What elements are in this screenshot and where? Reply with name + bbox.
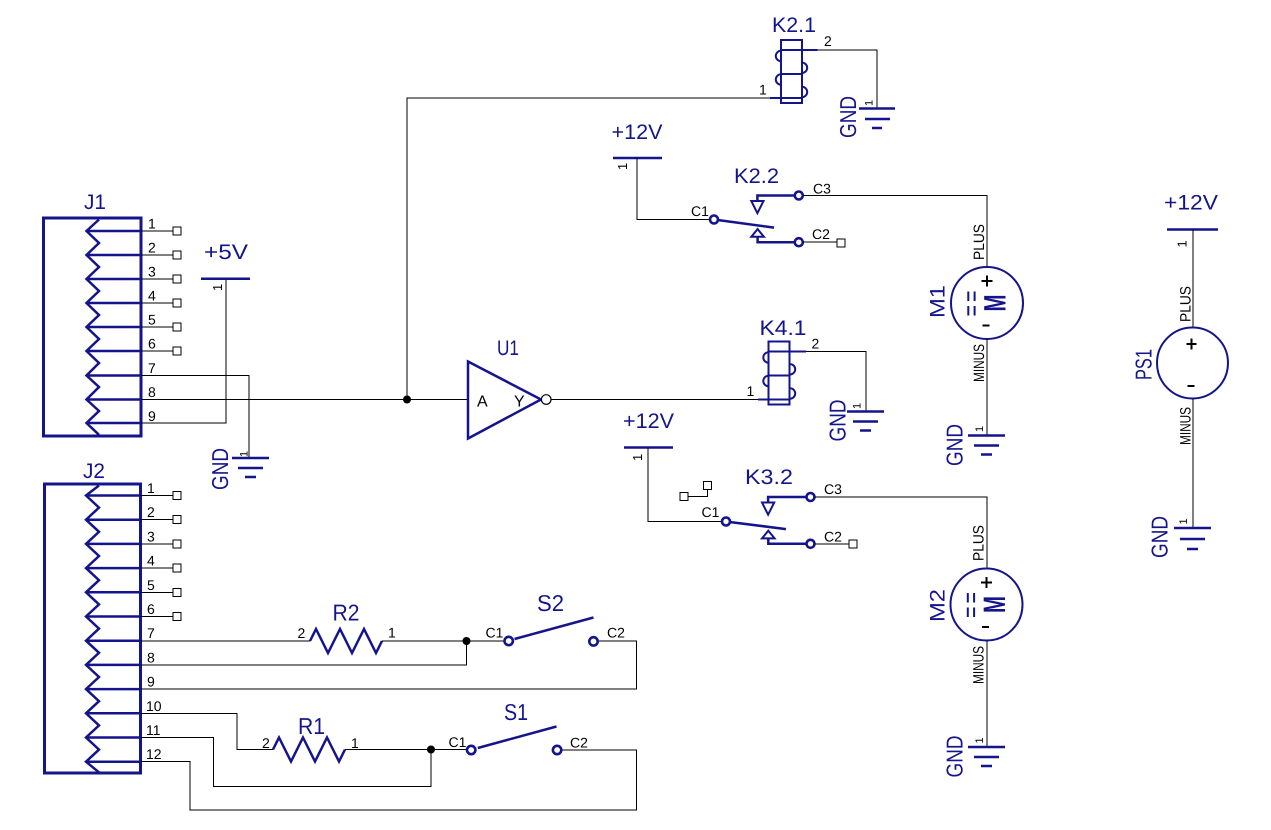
motor M2 <box>927 569 1023 641</box>
svg-text:C2: C2 <box>570 735 588 751</box>
svg-text:MINUS: MINUS <box>971 646 988 684</box>
svg-text:1: 1 <box>210 284 225 291</box>
svg-text:1: 1 <box>747 383 755 399</box>
ground GND (J1 pin 7) <box>207 448 269 490</box>
J1 pin 1 <box>141 216 181 236</box>
ground GND (PS1) <box>1147 516 1212 558</box>
svg-text:C1: C1 <box>486 625 504 641</box>
svg-text:2: 2 <box>824 33 832 49</box>
svg-text:8: 8 <box>148 384 156 400</box>
svg-text:K4.1: K4.1 <box>760 317 807 340</box>
svg-text:1: 1 <box>148 216 156 232</box>
switch S1 <box>449 699 589 754</box>
svg-text:C2: C2 <box>607 625 625 641</box>
svg-text:M: M <box>977 596 1012 613</box>
svg-text:K3.2: K3.2 <box>745 466 793 489</box>
svg-text:4: 4 <box>148 288 156 304</box>
wire +12V to K3.2 C1 <box>648 448 721 522</box>
power +12V (K3.2) <box>623 410 674 461</box>
svg-text:GND: GND <box>825 400 851 442</box>
switch S2 <box>486 590 626 646</box>
svg-text:PLUS: PLUS <box>971 525 988 561</box>
svg-text:9: 9 <box>148 408 156 424</box>
motor M1 <box>927 267 1024 339</box>
ground GND (M1) <box>942 424 1006 466</box>
wire +12V to PS1 plus <box>1192 230 1194 328</box>
svg-text:1: 1 <box>239 451 251 457</box>
connector J2 <box>45 460 141 773</box>
K2.2 C2 unconnected square <box>803 239 845 247</box>
svg-text:2: 2 <box>148 240 156 256</box>
svg-text:PLUS: PLUS <box>971 224 988 260</box>
svg-text:M2: M2 <box>927 589 950 622</box>
J2 pin 4 <box>141 553 182 573</box>
svg-text:+12V: +12V <box>612 121 663 144</box>
wire PS1 minus to GND <box>1192 399 1194 529</box>
wire R2 pin1 to S2 C1 <box>382 640 504 642</box>
svg-text:+12V: +12V <box>623 410 674 433</box>
J1 pin 6 <box>141 336 181 356</box>
svg-text:GND: GND <box>1147 516 1173 558</box>
J1 pin 8 wire to U1 input <box>141 384 468 400</box>
svg-text:Y: Y <box>514 394 525 411</box>
svg-text:GND: GND <box>207 448 233 490</box>
svg-text:C1: C1 <box>449 734 467 750</box>
connector J1 <box>44 191 142 436</box>
wire K3.2 C3 to motor M2 <box>815 497 987 569</box>
relay coil K4.1 <box>758 317 807 405</box>
svg-text:6: 6 <box>148 336 156 352</box>
J2 pin 2 <box>141 504 182 524</box>
svg-text:1: 1 <box>1175 240 1190 247</box>
svg-text:C1: C1 <box>691 203 709 219</box>
J1 pin 7 wire to GND <box>141 360 249 458</box>
node junction at U1 input <box>403 396 411 404</box>
svg-text:1: 1 <box>1178 518 1190 524</box>
J2 pin 11 wire to R1 junction <box>141 722 432 787</box>
J2 pin 10 wire to R1 <box>141 698 274 750</box>
svg-text:J2: J2 <box>83 460 105 483</box>
wire K2.1 pin 2 to GND <box>818 50 878 109</box>
wire M1 minus to GND <box>986 339 988 435</box>
resistor R2 <box>298 600 397 654</box>
svg-text:M1: M1 <box>927 285 950 318</box>
J2 pin 9 wire to S2 C2 <box>141 641 637 690</box>
wire U1 input up to K2.1 pin 1 <box>407 98 770 400</box>
svg-text:1: 1 <box>388 625 396 641</box>
J1 pin 9 wire to +5V <box>141 279 226 424</box>
wire K4.1 pin 2 to GND <box>806 352 866 412</box>
svg-text:4: 4 <box>147 553 155 569</box>
power +12V (PS1) <box>1164 192 1218 248</box>
J2 pin 6 <box>141 601 182 621</box>
svg-text:C3: C3 <box>813 181 831 197</box>
svg-text:+12V: +12V <box>1164 192 1218 215</box>
ground GND (K4.1) <box>825 400 885 442</box>
svg-text:S2: S2 <box>537 590 564 616</box>
J2 pin 12 wire to S1 C2 <box>141 746 637 810</box>
svg-text:8: 8 <box>147 649 155 665</box>
svg-text:3: 3 <box>147 528 155 544</box>
svg-text:K2.2: K2.2 <box>734 165 779 188</box>
wire K2.2 C3 to motor M1 <box>803 196 987 268</box>
svg-text:1: 1 <box>759 82 767 98</box>
unconnected stub squares <box>680 482 712 501</box>
svg-text:1: 1 <box>864 100 876 106</box>
svg-text:7: 7 <box>148 360 156 376</box>
svg-text:3: 3 <box>148 264 156 280</box>
svg-text:C3: C3 <box>824 481 842 497</box>
op-amp buffer U1 <box>468 337 541 439</box>
J1 pin 3 <box>141 264 181 284</box>
svg-text:2: 2 <box>147 504 155 520</box>
svg-text:U1: U1 <box>497 337 519 360</box>
relay contact K2.2 <box>691 165 831 246</box>
svg-text:PS1: PS1 <box>1131 349 1157 380</box>
J2 pin 3 <box>141 528 182 548</box>
J1 pin 5 <box>141 312 181 332</box>
U1 output bubble <box>541 395 551 405</box>
J1 pin 4 <box>141 288 181 308</box>
svg-text:R1: R1 <box>298 713 325 739</box>
node junction R2/S2/J2.8 <box>463 637 471 645</box>
svg-text:2: 2 <box>262 735 270 751</box>
power +12V (K2.2) <box>612 121 663 170</box>
svg-text:GND: GND <box>942 736 968 778</box>
J2 pin 1 <box>141 480 182 500</box>
J2 pin 8 wire to junction <box>141 641 467 665</box>
svg-text:C1: C1 <box>702 504 720 520</box>
wire R1 pin1 to S1 C1 <box>345 749 466 751</box>
svg-text:C2: C2 <box>824 529 842 545</box>
svg-text:1: 1 <box>974 426 986 432</box>
wire +12V to K2.2 C1 <box>637 158 709 220</box>
svg-text:2: 2 <box>298 625 306 641</box>
svg-text:MINUS: MINUS <box>971 344 988 382</box>
svg-text:1: 1 <box>852 403 864 409</box>
power supply PS1 <box>1131 328 1229 399</box>
relay coil K2.1 <box>770 14 818 103</box>
svg-text:1: 1 <box>351 735 359 751</box>
svg-text:11: 11 <box>146 722 161 738</box>
svg-text:GND: GND <box>942 424 968 466</box>
ground GND (K2.1) <box>835 96 895 138</box>
J2 pin 5 <box>141 577 182 597</box>
node junction R1/S1/J2.11 <box>427 746 435 754</box>
svg-text:10: 10 <box>146 698 162 714</box>
resistor R1 <box>262 713 359 762</box>
svg-text:A: A <box>477 394 488 411</box>
svg-text:1: 1 <box>974 737 986 743</box>
svg-text:5: 5 <box>148 312 156 328</box>
svg-text:5: 5 <box>147 577 155 593</box>
svg-text:1: 1 <box>147 480 155 496</box>
svg-text:2: 2 <box>812 336 820 352</box>
svg-text:1: 1 <box>615 163 630 170</box>
svg-text:PLUS: PLUS <box>1178 286 1195 322</box>
relay contact K3.2 <box>702 466 843 548</box>
svg-text:K2.1: K2.1 <box>772 14 816 37</box>
K3.2 C2 unconnected square <box>815 540 857 548</box>
svg-text:GND: GND <box>835 96 861 138</box>
svg-text:J1: J1 <box>84 191 106 214</box>
svg-text:S1: S1 <box>504 699 528 725</box>
power +5V <box>201 241 250 291</box>
svg-text:M: M <box>978 295 1013 312</box>
svg-text:6: 6 <box>147 601 155 617</box>
svg-text:7: 7 <box>147 625 155 641</box>
wire M2 minus to GND <box>986 641 988 748</box>
svg-text:1: 1 <box>630 454 645 461</box>
wire U1 output to K4.1 pin 1 <box>551 399 758 401</box>
svg-text:C2: C2 <box>812 226 830 242</box>
svg-text:9: 9 <box>147 674 155 690</box>
svg-text:MINUS: MINUS <box>1178 407 1195 445</box>
ground GND (M2) <box>942 736 1006 778</box>
svg-text:+5V: +5V <box>204 241 248 264</box>
svg-text:12: 12 <box>146 746 162 762</box>
svg-text:R2: R2 <box>333 600 360 626</box>
J1 pin 2 <box>141 240 181 260</box>
J2 pin 7 wire to R2 <box>141 625 311 641</box>
